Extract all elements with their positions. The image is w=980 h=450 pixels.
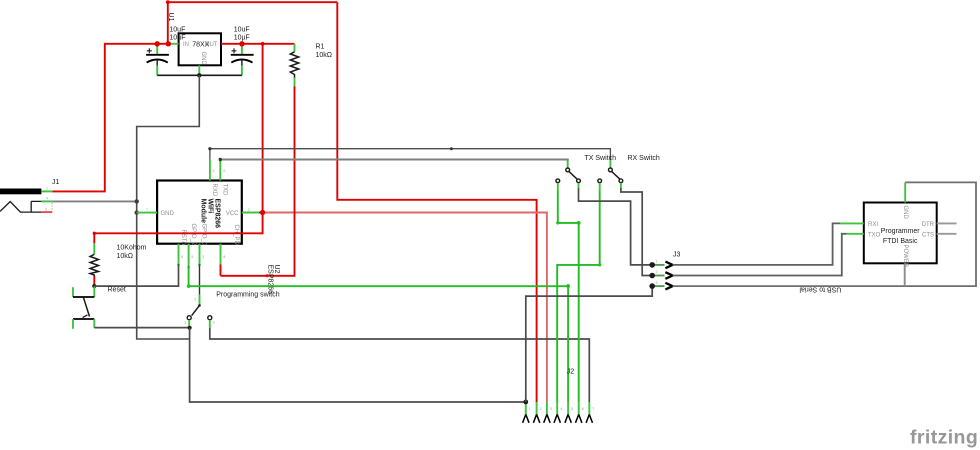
- label Programming switch: [216, 292, 280, 299]
- svg-text:RSTn: RSTn: [180, 230, 186, 245]
- svg-text:8: 8: [223, 255, 225, 259]
- wire J3 pin1 to FTDI RXI: [673, 223, 840, 265]
- regulator U1 label: [167, 13, 174, 22]
- svg-text:0: 0: [223, 169, 225, 173]
- resistor R1 label: [316, 44, 333, 60]
- pin GPIO_2 stub: [187, 244, 193, 269]
- junction reset: [92, 284, 96, 288]
- pin CH_PD stub: [221, 244, 226, 265]
- wire reset net: [94, 266, 178, 287]
- pin CTS stub: [937, 233, 957, 235]
- switch S3 TX: [556, 161, 581, 191]
- pin RXI stub: [840, 222, 864, 224]
- label USB to Serial: [799, 286, 841, 293]
- module U2 body ESP8266: [157, 181, 242, 246]
- svg-text:6: 6: [582, 407, 584, 411]
- wire RX right to J3 pin2: [621, 188, 652, 276]
- pin RXD stub: [210, 159, 215, 181]
- wire Vin left drop: [167, 2, 169, 44]
- pin TXD stub: [220, 161, 225, 181]
- wire TX left to J2 pin6: [556, 191, 580, 403]
- wire VCC drop and pullup rail: [93, 44, 263, 243]
- svg-text:7: 7: [592, 407, 594, 411]
- capacitor C1 10uF label: [169, 27, 185, 42]
- pin VCC stub: [242, 208, 263, 213]
- fritzing watermark: [910, 427, 978, 449]
- resistor R2 label: [117, 245, 147, 261]
- pin GPIO_0 stub: [198, 244, 204, 266]
- svg-text:GND: GND: [200, 52, 206, 66]
- svg-text:10uF: 10uF: [169, 27, 185, 34]
- svg-text:GPIO_0: GPIO_0: [200, 224, 206, 246]
- junction programming left: [188, 326, 192, 330]
- wire VCC to J2 pin3: [263, 213, 547, 403]
- label J2: [567, 369, 575, 376]
- svg-text:10µF: 10µF: [169, 35, 185, 42]
- svg-text:10kΩ: 10kΩ: [117, 253, 134, 260]
- svg-text:1: 1: [656, 260, 658, 264]
- wire J1 pin4 ground: [52, 200, 136, 202]
- wire TXD to TX switch: [219, 158, 568, 161]
- junction rail dots: [155, 41, 265, 46]
- svg-text:USB to Serial: USB to Serial: [799, 286, 841, 293]
- svg-text:J1: J1: [52, 179, 60, 186]
- svg-text:J3: J3: [673, 252, 681, 259]
- svg-text:10uF: 10uF: [234, 27, 250, 34]
- junction gnd ESP: [135, 210, 139, 214]
- wire J3 pin3 usb-serial loop: [673, 182, 976, 286]
- junction VCC: [260, 210, 265, 215]
- pin POWER wire: [904, 263, 906, 286]
- switch S1 Reset: [73, 287, 94, 329]
- svg-text:OUT: OUT: [205, 42, 218, 48]
- wire input rail: [157, 43, 171, 45]
- svg-text:3: 3: [213, 321, 215, 325]
- svg-text:5: 5: [191, 255, 193, 259]
- svg-text:1: 1: [529, 407, 531, 411]
- svg-text:GND: GND: [161, 211, 175, 217]
- svg-text:1: 1: [213, 169, 215, 173]
- svg-text:Reset: Reset: [108, 287, 126, 294]
- svg-text:R1: R1: [316, 44, 325, 51]
- svg-text:ESP8266: ESP8266: [213, 199, 220, 229]
- connector J1 label: [52, 179, 60, 186]
- wire reset switch to gnd junction: [94, 327, 189, 329]
- junction J2 pin1: [523, 400, 528, 405]
- label Reset: [108, 287, 126, 294]
- module U2 reference label: [266, 265, 280, 295]
- svg-text:IN: IN: [183, 42, 189, 48]
- label TX Switch: [585, 155, 617, 162]
- pin IN stub: [171, 43, 179, 45]
- connector J1 body: [0, 189, 52, 213]
- svg-text:U1: U1: [167, 13, 174, 22]
- svg-text:10Kohom: 10Kohom: [117, 245, 147, 252]
- svg-text:GPIO_2: GPIO_2: [190, 224, 196, 246]
- svg-text:CH_PD: CH_PD: [233, 225, 239, 246]
- label J3: [673, 252, 681, 259]
- resistor R2 10K: [90, 243, 98, 286]
- svg-text:10µF: 10µF: [234, 35, 250, 42]
- wire J3 pin3 branch to J2 pin1: [526, 286, 652, 402]
- switch S2 programming: [184, 295, 215, 328]
- pin J1-1 stub: [41, 187, 52, 192]
- svg-text:3: 3: [550, 407, 552, 411]
- switch S4 RX: [598, 160, 623, 191]
- wire J3 pin2 to FTDI TXO: [673, 234, 846, 276]
- svg-text:2: 2: [248, 208, 250, 212]
- svg-text:RXD: RXD: [211, 184, 217, 197]
- resistor R1: [290, 44, 298, 87]
- label RX Switch: [628, 155, 660, 162]
- svg-text:1: 1: [184, 321, 186, 325]
- svg-text:2: 2: [194, 298, 196, 302]
- capacitor C1: [146, 45, 169, 75]
- capacitor C2 10uF label: [234, 27, 250, 42]
- pin J1-4 stub: [41, 197, 52, 202]
- svg-text:7: 7: [146, 208, 148, 212]
- svg-text:TX Switch: TX Switch: [585, 155, 617, 162]
- svg-text:RX Switch: RX Switch: [628, 155, 660, 162]
- pin GND stub: [904, 182, 906, 202]
- svg-text:10kΩ: 10kΩ: [316, 52, 333, 59]
- wire TX right to J3 pin1: [579, 188, 653, 265]
- regulator 78XX U1 body: [179, 33, 221, 65]
- svg-text:3: 3: [45, 207, 47, 211]
- capacitor C2: [231, 45, 254, 75]
- svg-text:Programmer: Programmer: [881, 228, 921, 235]
- wire Vin right drop to J2 pin2: [337, 2, 536, 402]
- svg-text:fritzing: fritzing: [910, 427, 978, 449]
- wire Vin top red: [166, 0, 337, 4]
- svg-text:Programming switch: Programming switch: [216, 292, 280, 299]
- pin RSTn stub: [177, 244, 183, 266]
- svg-text:FTDI Basic: FTDI Basic: [883, 238, 918, 245]
- svg-text:TXD: TXD: [222, 184, 228, 197]
- svg-text:WiFi: WiFi: [206, 199, 213, 214]
- svg-text:DTR: DTR: [922, 222, 935, 228]
- wire J1 pin1 to regulator IN: [52, 44, 157, 192]
- svg-text:2: 2: [540, 407, 542, 411]
- svg-text:GND: GND: [902, 206, 908, 220]
- pin DTR stub: [937, 222, 957, 224]
- svg-text:J2: J2: [567, 369, 575, 376]
- svg-text:ESP8266: ESP8266: [266, 265, 273, 295]
- svg-text:4: 4: [46, 197, 48, 201]
- wire GPIO_0 to switch: [199, 266, 201, 295]
- pin OUT wire: [221, 43, 295, 45]
- wire gnd down from regulator: [137, 75, 200, 339]
- wire GPIO_2 to J2 pin5: [187, 267, 570, 402]
- junction gnd caps: [197, 73, 201, 77]
- wire cap ground bar: [157, 74, 242, 76]
- svg-text:2: 2: [656, 270, 658, 274]
- svg-text:CTS: CTS: [922, 232, 934, 238]
- connector J2 pins: [523, 402, 595, 423]
- junction gnd J1: [135, 199, 139, 203]
- wire CH_PD red: [220, 265, 222, 276]
- pin GND stub: [137, 208, 157, 213]
- svg-text:Module: Module: [199, 199, 206, 224]
- svg-text:3: 3: [202, 255, 204, 259]
- svg-text:TXO: TXO: [868, 232, 881, 238]
- svg-text:VCC: VCC: [226, 211, 239, 217]
- pin J1-3 stub: [41, 207, 52, 212]
- connector J3 pins: [652, 260, 672, 290]
- svg-text:4: 4: [560, 407, 562, 411]
- wire RX left to J2 pin4: [557, 191, 601, 403]
- wire R1 to CH_PD: [221, 86, 295, 277]
- svg-text:6: 6: [181, 255, 183, 259]
- pin U1 GND stub: [198, 65, 200, 75]
- wire RXD to RX switch: [208, 147, 610, 160]
- wire programming right to J2 pin7: [210, 328, 590, 402]
- wire gnd to J2 pin1: [190, 328, 526, 402]
- pin TXO stub: [846, 233, 864, 235]
- svg-text:1: 1: [46, 187, 48, 191]
- svg-text:5: 5: [571, 407, 573, 411]
- module U3 FTDI Basic body: [864, 203, 937, 268]
- svg-text:RXI: RXI: [868, 222, 878, 228]
- svg-text:3: 3: [656, 281, 658, 285]
- junction J3 pins: [649, 262, 655, 289]
